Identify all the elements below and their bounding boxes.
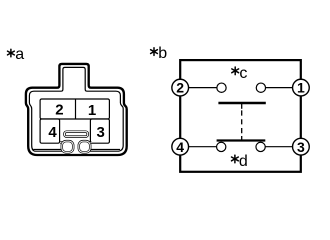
svg-text:4: 4: [48, 124, 57, 141]
switch contact circle right: [256, 142, 265, 151]
keying foot right: [79, 141, 90, 152]
terminal 4: [172, 138, 189, 155]
mechanical link dashed line: [241, 110, 243, 133]
inner cavity floor line right: [90, 148, 120, 150]
pin cavity 4: [40, 119, 60, 143]
label *c: [232, 65, 248, 82]
inner cavity floor line left: [33, 148, 62, 150]
divider between pin 2 and pin 1: [75, 99, 77, 119]
svg-text:2: 2: [176, 80, 184, 96]
svg-text:d: d: [239, 153, 248, 170]
terminal 3: [293, 138, 310, 155]
wire coil contact to terminal1: [266, 87, 293, 89]
connector housing outer outline: [26, 64, 127, 155]
keying foot left: [62, 141, 73, 152]
pin cavity top row (pins 2 and 1): [40, 99, 109, 119]
pin cavity 3: [90, 119, 109, 143]
relay box: [180, 60, 301, 172]
terminal 1: [293, 79, 310, 96]
switch movable bar: [217, 139, 266, 141]
svg-text:1: 1: [88, 102, 96, 119]
armature stub bottom: [241, 136, 243, 140]
armature stub top: [241, 103, 243, 109]
svg-text:3: 3: [297, 139, 305, 155]
svg-text:1: 1: [297, 80, 305, 96]
gap in bottom wall line at keying feature: [63, 150, 88, 153]
coil armature bar: [218, 102, 265, 104]
svg-text:c: c: [239, 65, 247, 82]
svg-text:b: b: [158, 45, 167, 62]
coil contact circle left: [217, 83, 226, 92]
keying rib lines left: [60, 141, 63, 144]
label *d: [232, 153, 248, 170]
keying tab brim: [65, 132, 88, 137]
wire terminal4 to switch contact: [189, 146, 217, 148]
label *b: [151, 45, 168, 62]
terminal 2: [172, 79, 189, 96]
svg-text:3: 3: [97, 124, 105, 141]
svg-text:a: a: [15, 46, 24, 63]
label *a: [7, 46, 24, 63]
svg-text:4: 4: [176, 139, 184, 155]
keying rib lines right: [89, 141, 92, 144]
coil contact circle right: [256, 83, 265, 92]
wire terminal2 to coil contact: [189, 87, 218, 89]
svg-text:2: 2: [55, 102, 63, 119]
wire switch contact to terminal3: [265, 146, 292, 148]
switch contact circle left: [217, 142, 226, 151]
